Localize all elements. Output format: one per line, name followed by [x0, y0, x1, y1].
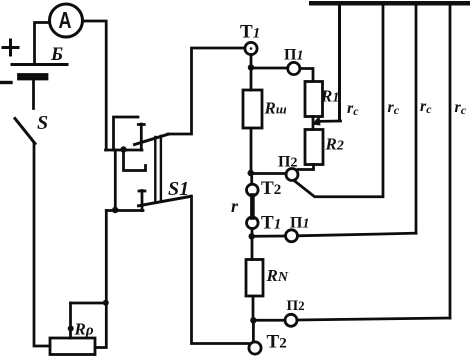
- svg-text:T2: T2: [261, 178, 281, 199]
- svg-text:A: A: [59, 8, 72, 34]
- terminal T2 bottom: [249, 342, 261, 354]
- wire T1 to node: [250, 55, 253, 67]
- wire node3 to П1 lower: [252, 235, 286, 238]
- S1 pole-2 fixed contact: [141, 191, 144, 211]
- ammeter A: [50, 4, 83, 37]
- svg-text:T1: T1: [240, 22, 260, 43]
- svg-text:r: r: [231, 196, 239, 216]
- S1 pole-1 fixed contact: [140, 124, 143, 150]
- terminal П2 lower: [285, 314, 297, 326]
- terminal П1 upper: [288, 62, 300, 74]
- battery plus sign: [3, 40, 18, 55]
- wire node3 to RN: [251, 236, 254, 259]
- svg-text:rc: rc: [347, 100, 359, 118]
- node4: [250, 317, 256, 323]
- svg-text:rc: rc: [455, 99, 467, 117]
- svg-text:П2: П2: [287, 298, 305, 314]
- bus bar top: [309, 1, 470, 6]
- wire switch down left side: [34, 144, 50, 347]
- wire RN to node4: [252, 296, 255, 320]
- resistor R1: [305, 82, 323, 117]
- battery minus sign: [0, 81, 11, 84]
- wire П1 to R1: [300, 69, 313, 82]
- wire П2 upper diagonal to rc2: [294, 5, 383, 197]
- S1 pole-1 common wire: [106, 149, 143, 152]
- wire П1 lower to rc3: [298, 233, 416, 236]
- rheostat Rp: [50, 338, 95, 355]
- wire node2 to T2: [250, 173, 253, 184]
- resistor RN: [246, 260, 263, 297]
- switch S: [15, 119, 35, 144]
- rheostat wiper: [69, 303, 72, 338]
- svg-text:RN: RN: [266, 266, 289, 285]
- svg-text:Rш: Rш: [264, 99, 287, 118]
- svg-text:rc: rc: [388, 99, 400, 117]
- terminal T1 lower: [247, 217, 259, 229]
- node junction dot: [120, 146, 126, 152]
- wire Rш to node2: [250, 128, 253, 173]
- battery Б: [12, 63, 67, 66]
- svg-text:R2: R2: [325, 135, 344, 154]
- wire R1 to R2: [312, 117, 315, 130]
- node3: [249, 233, 255, 239]
- S1 upper-left contact bracket: [114, 117, 139, 150]
- S1 linkage bars: [154, 137, 156, 201]
- wire T1 to node3: [251, 229, 254, 237]
- terminal T2: [247, 184, 259, 196]
- wire ammeter right lead: [84, 21, 107, 150]
- S1 pole-2 feed wire: [114, 150, 117, 211]
- svg-text:T2: T2: [267, 332, 287, 353]
- svg-text:rc: rc: [420, 98, 432, 116]
- wire R2 to П2: [298, 165, 314, 170]
- svg-text:П2: П2: [278, 154, 297, 171]
- svg-text:П1: П1: [284, 47, 303, 64]
- wire rc3 vertical: [415, 5, 418, 233]
- node2: [248, 170, 254, 176]
- wire node to Rш: [250, 68, 253, 91]
- S1 middle bracket: [124, 150, 146, 171]
- wire battery to switch: [32, 79, 35, 109]
- wire tap rc1 with arrow: [318, 120, 341, 123]
- wire node to П1: [251, 67, 287, 70]
- wire S1 pole-1 to T1: [168, 48, 244, 134]
- S1 pole-2 common wire: [106, 209, 143, 212]
- svg-text:T1: T1: [261, 213, 281, 234]
- wire node2 to П2: [251, 172, 286, 175]
- svg-text:Б: Б: [50, 44, 63, 65]
- terminal T1 upper: [245, 42, 257, 54]
- svg-text:R1: R1: [320, 87, 339, 106]
- wire node4 to П2 lower: [253, 319, 285, 322]
- wire rc1 vertical: [338, 5, 341, 121]
- S1 pole-2 blade: [139, 196, 192, 206]
- wire П2 lower to rc4 corner: [297, 318, 450, 320]
- resistor Rш: [243, 90, 262, 128]
- wire rc4 vertical: [449, 5, 452, 318]
- terminal П2 upper: [286, 169, 298, 181]
- svg-text:S: S: [37, 112, 48, 134]
- wire Rp right lead: [95, 211, 106, 348]
- wire node4 to T2 bottom: [252, 320, 255, 342]
- svg-text:Rρ: Rρ: [74, 320, 94, 339]
- wire wiper loop to right rail: [71, 302, 107, 305]
- link r thick wire: [250, 196, 255, 218]
- wire S1 pole-2 to T2 bottom: [191, 196, 249, 343]
- wire ammeter left lead: [35, 23, 50, 64]
- node: [248, 64, 254, 70]
- S1 pole-1 blade: [135, 134, 169, 144]
- svg-text:П1: П1: [290, 215, 309, 232]
- resistor R2: [305, 130, 323, 165]
- terminal П1 lower: [286, 230, 298, 242]
